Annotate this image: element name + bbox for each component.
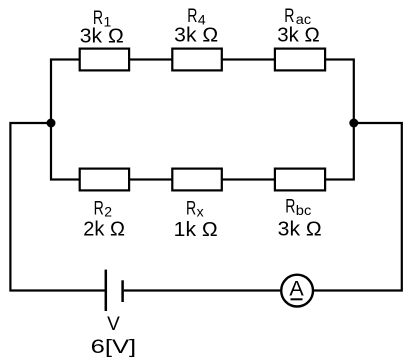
svg-text:2: 2 [104,204,112,220]
svg-text:R: R [94,198,104,220]
resistor R2 [80,169,129,191]
svg-text:2k Ω: 2k Ω [83,219,125,241]
resistor R4 [172,49,222,71]
svg-text:3k Ω: 3k Ω [278,219,322,241]
resistor Rbc [275,169,325,191]
wire left outer branch [10,123,104,291]
node right junction [349,119,358,128]
ammeter A [281,275,313,307]
svg-text:x: x [197,204,204,220]
svg-text:1k Ω: 1k Ω [174,219,218,241]
battery V [106,270,123,311]
svg-text:V: V [107,314,120,335]
svg-text:R: R [186,197,196,219]
svg-text:6[V]: 6[V] [91,336,137,358]
wire right outer branch [314,123,402,291]
svg-text:3k Ω: 3k Ω [277,24,320,46]
svg-text:A: A [289,276,304,300]
wire battery to ammeter [124,289,281,291]
svg-text:R: R [285,196,295,218]
node left junction [47,119,56,128]
wire inner bridge loop [51,60,354,180]
svg-text:3k Ω: 3k Ω [174,24,218,46]
resistor R1 [80,49,129,71]
svg-text:3k Ω: 3k Ω [80,25,124,47]
svg-text:bc: bc [296,202,312,218]
resistor Rac [275,49,325,71]
resistor Rx [172,169,222,191]
